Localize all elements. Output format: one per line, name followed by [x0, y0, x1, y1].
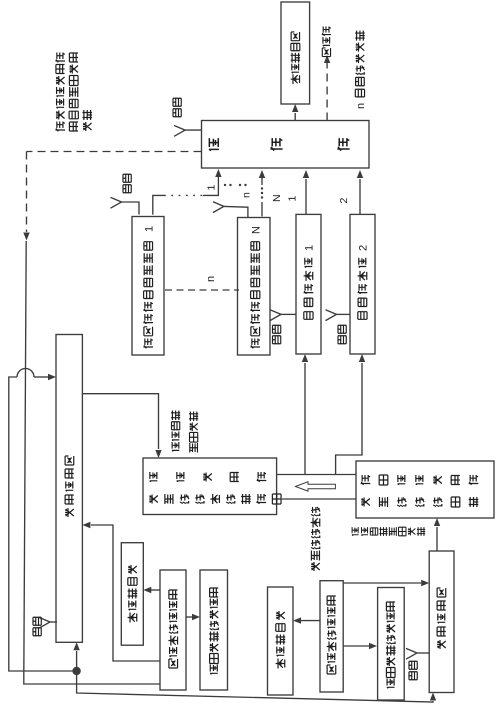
- svg-text:1: 1: [287, 196, 299, 202]
- svg-text:N: N: [250, 226, 262, 234]
- svg-text:2: 2: [338, 198, 350, 204]
- svg-text:n: n: [205, 276, 217, 282]
- svg-text:n: n: [355, 103, 367, 109]
- svg-text:1: 1: [304, 245, 316, 251]
- svg-text:N: N: [271, 194, 283, 202]
- svg-text:2: 2: [358, 245, 370, 251]
- svg-text:1: 1: [143, 226, 155, 232]
- svg-text:n: n: [241, 192, 253, 198]
- svg-text:1: 1: [206, 185, 218, 191]
